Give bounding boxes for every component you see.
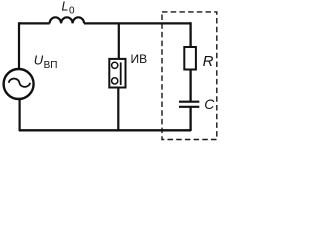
svg-text:ИВ: ИВ bbox=[131, 52, 148, 66]
wire left branch bbox=[18, 22, 21, 131]
svg-text:L: L bbox=[62, 0, 69, 14]
wire middle branch bbox=[117, 23, 120, 130]
wire bottom bbox=[19, 129, 191, 131]
svg-text:U: U bbox=[34, 52, 44, 67]
label IV bbox=[131, 52, 148, 66]
label Uvp bbox=[34, 52, 58, 71]
resistor R bbox=[184, 47, 196, 70]
label C bbox=[204, 96, 215, 112]
wire top bbox=[19, 22, 191, 24]
label L0 bbox=[62, 0, 76, 17]
svg-text:R: R bbox=[203, 53, 214, 70]
vibrator IV bbox=[109, 59, 125, 88]
inductor L0 bbox=[50, 17, 85, 23]
svg-text:ВП: ВП bbox=[44, 60, 58, 71]
voltage source Uvp bbox=[4, 69, 34, 99]
capacitor C bbox=[179, 102, 199, 107]
label R bbox=[203, 53, 214, 70]
wire right branch bbox=[189, 22, 191, 131]
svg-text:0: 0 bbox=[69, 6, 75, 17]
svg-text:C: C bbox=[204, 96, 215, 112]
dashed box (load network) bbox=[162, 12, 217, 140]
